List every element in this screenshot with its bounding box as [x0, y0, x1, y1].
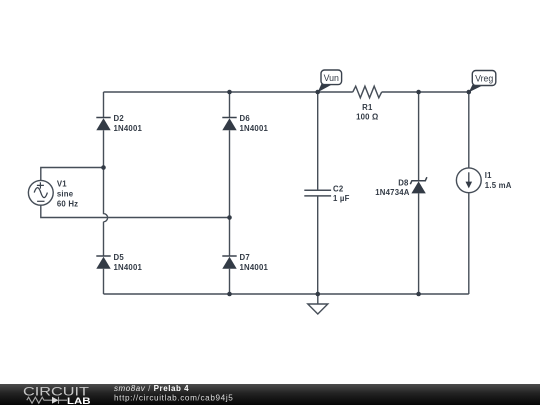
svg-text:http://circuitlab.com/cab94j5: http://circuitlab.com/cab94j5 [114, 394, 233, 403]
ground [308, 304, 328, 314]
svg-text:V1: V1 [57, 179, 67, 188]
wire I1 branch [468, 92, 470, 294]
svg-text:1N4734A: 1N4734A [375, 188, 410, 197]
diode D5 [96, 256, 110, 269]
wire V1 top lead to node A [41, 168, 104, 181]
svg-text:1N4001: 1N4001 [114, 124, 143, 133]
R1 labels [356, 103, 378, 122]
junction dot Vreg node [467, 90, 472, 95]
svg-text:100 Ω: 100 Ω [356, 112, 378, 121]
svg-text:I1: I1 [485, 171, 492, 180]
svg-text:sine: sine [57, 189, 74, 198]
svg-text:D7: D7 [240, 253, 250, 262]
svg-text:D6: D6 [240, 114, 251, 123]
wire top bus [104, 91, 469, 93]
resistor R1 [353, 86, 382, 98]
junction dot top bus / D6 branch [227, 90, 232, 95]
junction dot top bus / D8 branch [416, 90, 421, 95]
svg-text:smo8av / Prelab 4: smo8av / Prelab 4 [114, 384, 189, 393]
ground stem [317, 294, 319, 304]
I1 labels [485, 171, 512, 190]
svg-text:D2: D2 [114, 114, 125, 123]
CircuitLab logo resistor-diode glyph [27, 397, 67, 404]
wire D8 branch [418, 92, 420, 294]
junction dot Vun node [315, 90, 320, 95]
capacitor C2 [304, 190, 331, 196]
svg-text:1 µF: 1 µF [333, 194, 350, 203]
diode D7 [222, 256, 236, 269]
junction dot ground node [316, 292, 321, 297]
svg-text:Vun: Vun [324, 73, 339, 83]
svg-text:1N4001: 1N4001 [240, 263, 269, 272]
svg-text:Vreg: Vreg [475, 73, 493, 83]
diode D2 [96, 118, 110, 131]
node flag Vreg [469, 71, 496, 93]
D7 labels [240, 253, 269, 272]
svg-text:1N4001: 1N4001 [114, 263, 143, 272]
svg-text:D8: D8 [398, 178, 409, 187]
voltage source V1 [28, 180, 53, 205]
wire bottom bus [104, 293, 469, 295]
svg-text:1N4001: 1N4001 [240, 124, 269, 133]
footer bar [0, 384, 540, 405]
current source I1 [456, 168, 481, 193]
diode D6 [222, 118, 236, 131]
wire C2 branch [317, 92, 319, 294]
D2 labels [114, 114, 143, 133]
svg-text:R1: R1 [362, 103, 373, 112]
V1 labels [57, 179, 78, 208]
svg-text:1.5 mA: 1.5 mA [485, 181, 512, 190]
wire V1 bottom lead to right branch [41, 205, 230, 217]
D6 labels [240, 114, 269, 133]
junction dot bottom bus / D7 branch [227, 292, 232, 297]
svg-text:60 Hz: 60 Hz [57, 199, 78, 208]
junction dot bottom bus / D8 branch [416, 292, 421, 297]
junction dot V1 bottom to right branch [227, 215, 232, 220]
svg-text:D5: D5 [114, 253, 125, 262]
D8 labels [375, 178, 410, 197]
wire left bridge branch with hop over V1 wire [104, 92, 108, 294]
D5 labels [114, 253, 143, 272]
svg-text:C2: C2 [333, 184, 344, 193]
zener diode D8 [410, 177, 427, 193]
svg-text:LAB: LAB [67, 396, 91, 405]
wire right bridge branch [229, 92, 231, 294]
C2 labels [333, 184, 350, 203]
node flag Vun [318, 70, 342, 92]
junction dot V1 top to left branch [101, 165, 106, 170]
